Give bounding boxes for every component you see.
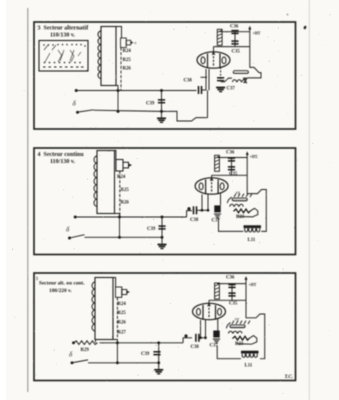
tube anode lead (211, 175, 213, 178)
svg-text:R23: R23 (236, 215, 245, 220)
svg-text:R24: R24 (118, 302, 127, 307)
svg-text:+HT: +HT (249, 283, 257, 287)
ink dot (287, 14, 289, 16)
chassis left top corner (226, 323, 230, 329)
svg-text:C39: C39 (147, 227, 156, 232)
squiggle mark (243, 79, 247, 82)
voltage selector plug P1 (121, 38, 134, 47)
ground below C39 (158, 245, 167, 249)
voltage selector plug P2 (116, 160, 132, 172)
capacitor C39 (153, 352, 160, 355)
winding bumps (230, 204, 243, 206)
switch lever (78, 110, 93, 112)
capacitor C38 (196, 334, 199, 342)
node: R29 left contact (73, 342, 75, 344)
node: tap chain junction (119, 216, 121, 218)
HT filter bottom wire (209, 299, 246, 301)
bleeder resistor (215, 283, 220, 299)
winding bottom step to mains wire (113, 86, 118, 91)
svg-text:T.C.: T.C. (285, 375, 293, 380)
mains upper wire (75, 216, 187, 218)
tube V2 pins (202, 194, 221, 211)
chassis bottom wire (219, 219, 244, 232)
choke L11 (244, 225, 262, 232)
svg-text:5: 5 (36, 276, 38, 281)
tube V3 pins (201, 319, 218, 338)
HT filter top wire (220, 31, 250, 33)
panel 1 frame (34, 22, 296, 129)
svg-text:R25: R25 (123, 58, 132, 63)
svg-text:C37: C37 (212, 218, 221, 223)
+HT output lead with arrow (246, 153, 248, 175)
HT filter bottom wire (214, 46, 250, 48)
tap chain wire R24-R26 (120, 48, 122, 91)
svg-text:R26: R26 (123, 67, 132, 72)
resistor R29 zigzag (74, 341, 97, 345)
resistor R23 zigzag (233, 336, 250, 340)
node: tap chain junction (117, 90, 119, 92)
node: pin junctions (201, 209, 203, 211)
svg-text:L11: L11 (245, 364, 253, 369)
mounting slot (230, 325, 246, 329)
capacitor C37 hatch (216, 88, 225, 92)
node: C39 junction (158, 342, 160, 344)
voltage selector plug P3 (116, 287, 130, 297)
mounting slot (233, 70, 249, 74)
svg-text:C36: C36 (226, 276, 235, 281)
node: lower wire C39 junction (161, 236, 163, 238)
svg-text:C38: C38 (190, 218, 199, 223)
bleeder resistor (217, 29, 222, 45)
chassis outline right (248, 47, 262, 78)
svg-text:Secteur alt. ou cont.: Secteur alt. ou cont. (39, 281, 85, 287)
capacitor C36 (228, 285, 235, 288)
node: switch lower contact (69, 237, 71, 239)
capacitor C36 (228, 158, 235, 161)
mains upper wire (100, 342, 184, 344)
tube screen lead dashed (220, 67, 222, 79)
mains lower wire (88, 362, 159, 364)
switch lever (70, 235, 84, 238)
svg-text:ε.γ: ε.γ (235, 317, 239, 321)
slot hatches (234, 194, 252, 197)
capacitor C38 (199, 86, 202, 94)
wire bend up to C38 row (187, 211, 192, 217)
electrolytic C37 (214, 205, 221, 217)
node: C39 junction (161, 216, 163, 218)
rectifier tube V2 (195, 178, 228, 194)
svg-text:C35: C35 (229, 172, 238, 177)
svg-text:110/130 v.: 110/130 v. (50, 33, 76, 39)
svg-text:R23: R23 (235, 342, 244, 347)
voltage tap switch box S1 (39, 41, 88, 72)
R23 bulge outline (237, 336, 257, 345)
chassis left top corner (227, 197, 232, 203)
svg-text:R24: R24 (117, 175, 126, 180)
node: small terminal at bend (185, 335, 187, 337)
wire winding top to selector (115, 150, 116, 159)
svg-text:C36: C36 (230, 24, 239, 29)
tube anode lead (208, 300, 210, 304)
svg-text:C37: C37 (227, 86, 236, 91)
capacitor C36 (231, 31, 238, 34)
wire C39 leg (161, 217, 163, 244)
winding bumps (233, 80, 246, 82)
svg-text:C38: C38 (184, 79, 193, 84)
node: upper wire left contact (75, 90, 77, 92)
join between mains wires (117, 91, 119, 112)
svg-text:R25: R25 (118, 311, 127, 316)
ground below C39 (157, 118, 166, 122)
mains dropper winding T3 (95, 278, 113, 340)
svg-text:110/130 v.: 110/130 v. (50, 159, 76, 165)
node: small terminal at bend (188, 208, 190, 210)
mains lower wire with heater step (94, 110, 208, 121)
mains upper wire (76, 90, 197, 92)
HT filter bottom wire (212, 174, 248, 176)
wire C38 to tube pins (199, 337, 206, 339)
choke L11 (241, 351, 259, 358)
rectifier tube V1 (197, 52, 230, 68)
wire C39 leg (158, 343, 160, 369)
node: upper wire left contact (74, 216, 76, 218)
mains autotransformer winding T1 (101, 27, 116, 86)
chassis outline left (221, 78, 248, 82)
page edge rule (right) (308, 0, 310, 400)
winding bumps (229, 331, 242, 333)
switch lever (73, 360, 88, 363)
chassis top outline (247, 175, 266, 231)
capacitor C37 (217, 78, 224, 81)
tube V1 left bracket (201, 76, 208, 78)
node: lower wire C39 junction (158, 362, 160, 364)
svg-text:C39: C39 (146, 102, 155, 107)
wire C38 to tube pin (202, 89, 207, 91)
ground below C39 (154, 370, 163, 374)
capacitor C35 (228, 167, 235, 170)
capacitor C39 (158, 100, 165, 103)
C36/C35 leg (231, 284, 233, 301)
svg-text:R26: R26 (118, 321, 127, 326)
chassis top outline (246, 300, 265, 358)
panel 3 frame (34, 273, 296, 381)
svg-text:C37: C37 (210, 344, 219, 349)
join between mains wires (119, 217, 121, 237)
wire winding top to selector (116, 27, 122, 39)
capacitor C39 (158, 226, 165, 229)
resistor R23 zigzag (234, 209, 251, 213)
svg-text:C39: C39 (141, 352, 150, 357)
HT filter top wire (217, 283, 246, 285)
ink fleck top right (303, 25, 307, 29)
svg-text:R25: R25 (121, 188, 130, 193)
svg-text:R29: R29 (81, 348, 90, 353)
mains dropper winding T2 (97, 151, 115, 214)
svg-text:C38: C38 (191, 345, 200, 350)
mounting slot (232, 198, 248, 202)
svg-text:a: a (135, 41, 137, 45)
tube V1 heater pins (206, 69, 209, 118)
node: switch lower contact (71, 362, 73, 364)
wire C38 to tube pins (197, 209, 209, 211)
C36/C35 leg (231, 158, 233, 176)
node: pin junctions (200, 337, 202, 339)
wire bend up to C38 row (183, 338, 192, 343)
svg-text:R24: R24 (123, 49, 132, 54)
chassis bottom wire (217, 346, 241, 359)
capacitor C35 (231, 41, 238, 44)
svg-text:ε.γ: ε.γ (236, 190, 240, 194)
winding bottom step to mains wire (110, 214, 120, 218)
svg-text:C35: C35 (232, 49, 241, 54)
node: switch lower contact (77, 111, 79, 113)
bleeder resistor (215, 155, 220, 171)
C36/C35 leg (234, 32, 236, 47)
winding bottom junction (96, 340, 118, 343)
svg-text:+HT: +HT (253, 31, 261, 35)
node: lower wire C39 junction (161, 110, 163, 112)
slot hatches (232, 321, 250, 324)
svg-text:3 Secteur alternatif: 3 Secteur alternatif (38, 26, 90, 32)
page column rule (left) (27, 8, 29, 392)
electrolytic C37 (213, 331, 220, 343)
+HT output lead with arrow (245, 278, 247, 301)
node: join junction (117, 110, 119, 112)
rectifier tube V3 (193, 303, 226, 319)
svg-text:C36: C36 (226, 150, 235, 155)
wire winding top to selector (113, 278, 116, 288)
tap chain wire R24-R27 (116, 298, 118, 343)
capacitor C38 (194, 206, 197, 214)
svg-text:R26: R26 (121, 201, 130, 206)
svg-text:180/220 v.: 180/220 v. (49, 288, 72, 294)
tube anode lead (213, 47, 215, 53)
wire C39 leg (161, 91, 163, 118)
node: tap chain junction (116, 342, 118, 344)
tap chain wire R24-R26 (119, 171, 121, 217)
R23 bulge outline (238, 208, 258, 217)
node: C39 junction (161, 90, 163, 92)
capacitor C35 (228, 293, 235, 296)
svg-text:+HT.: +HT. (250, 155, 259, 159)
node: join junction (116, 362, 118, 364)
mains lower wire (85, 236, 163, 238)
join between mains wires (116, 343, 118, 363)
node: join junction (119, 236, 121, 238)
panel 2 frame (34, 148, 296, 255)
HT filter top wire (217, 157, 247, 159)
svg-text:R27: R27 (118, 330, 127, 335)
svg-text:L11: L11 (248, 238, 256, 243)
svg-text:4 Secteur continu: 4 Secteur continu (38, 152, 85, 158)
+HT output lead with arrow (249, 28, 251, 47)
svg-text:C35: C35 (229, 301, 238, 306)
